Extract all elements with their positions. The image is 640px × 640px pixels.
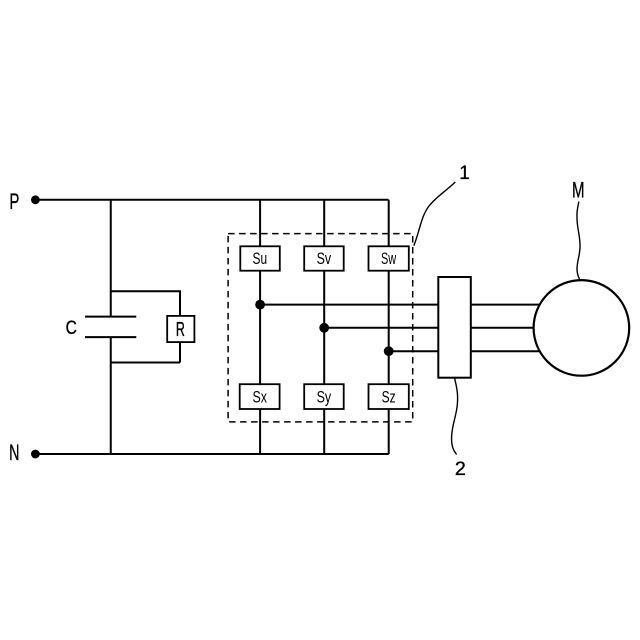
svg-text:M: M (572, 177, 585, 202)
svg-text:1: 1 (459, 163, 470, 184)
svg-text:Sx: Sx (252, 387, 267, 406)
svg-text:Sy: Sy (317, 387, 332, 406)
svg-text:Sz: Sz (382, 387, 396, 406)
svg-text:Su: Su (253, 249, 268, 268)
svg-text:P: P (9, 189, 19, 214)
svg-text:C: C (66, 317, 77, 339)
svg-text:Sv: Sv (317, 249, 332, 268)
svg-text:Sw: Sw (381, 249, 397, 268)
svg-text:2: 2 (455, 458, 466, 480)
svg-text:R: R (176, 318, 185, 341)
svg-text:N: N (9, 440, 19, 465)
